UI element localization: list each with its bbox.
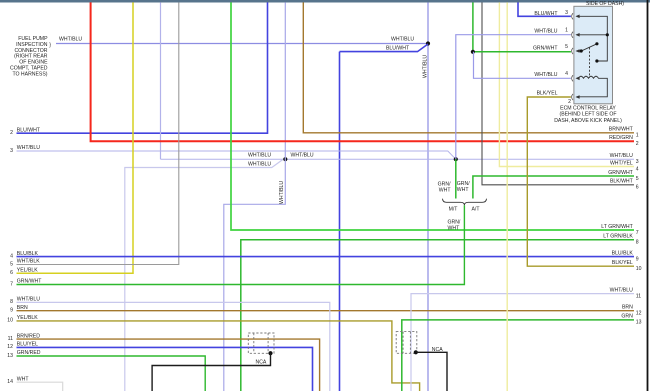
svg-text:12: 12 xyxy=(7,344,13,350)
svg-text:WHT/BLU: WHT/BLU xyxy=(534,29,557,35)
harness boundary bus (top bar) xyxy=(0,0,650,3)
svg-text:NCA: NCA xyxy=(256,360,267,366)
svg-text:WHT/BLU: WHT/BLU xyxy=(423,55,429,78)
svg-text:5: 5 xyxy=(636,176,639,182)
svg-text:BLU/WHT: BLU/WHT xyxy=(17,127,41,133)
svg-text:5: 5 xyxy=(10,261,13,267)
page right border xyxy=(647,0,649,391)
wire BRN/RED left pin 11 down at x=319.6 xyxy=(17,339,320,391)
svg-text:WHT/BLU: WHT/BLU xyxy=(17,297,40,303)
svg-text:13: 13 xyxy=(636,320,642,326)
svg-text:2: 2 xyxy=(636,141,639,147)
relay internal contact wiring xyxy=(577,16,608,97)
svg-text:8: 8 xyxy=(636,240,639,246)
svg-text:14: 14 xyxy=(7,379,13,385)
wire GRN right pin 13 down at x=401.8 xyxy=(402,320,634,391)
wire WHT/BLU pale branch x=124.8 with jog to dot xyxy=(125,159,283,391)
svg-text:GRN/RED: GRN/RED xyxy=(17,350,41,356)
node junction dot WHT/BLU x428 xyxy=(426,41,430,45)
svg-text:WHT: WHT xyxy=(17,376,30,382)
wire LT GRN/BLK right pin 8 down xyxy=(241,240,634,391)
wire WHT/BLU vertical x=285 down and left to x=223.8 xyxy=(224,2,285,391)
wire WHT/BLU relay pin 4 riser xyxy=(474,52,571,79)
label GRN/WHT (A/T branch) xyxy=(457,181,470,193)
svg-text:9: 9 xyxy=(636,256,639,262)
svg-text:BLU/BLK: BLU/BLK xyxy=(17,251,39,257)
node junction dot row3 x285 xyxy=(283,157,287,161)
fuel pump inspection connector label xyxy=(10,36,48,77)
wire BRN/WHT from top bar to right pin 1 xyxy=(303,2,634,132)
svg-text:TO HARNESS): TO HARNESS) xyxy=(12,71,47,77)
connector NCA right (dashed) xyxy=(396,332,417,354)
wire BRN full row left pin 9 to right pin 12 xyxy=(17,310,635,312)
svg-text:6: 6 xyxy=(636,185,639,191)
wire BLU/WHT left pin 2 xyxy=(17,2,268,133)
wire BLK/YEL relay pin 2 down to right pin 10 xyxy=(527,97,634,266)
wire black NCA right drop xyxy=(416,352,447,391)
svg-text:BLU/YEL: BLU/YEL xyxy=(17,342,38,348)
wire YEL/BLK left pin 6 up to top bar xyxy=(17,2,134,273)
M/T A/T selection brace xyxy=(443,199,487,206)
wire BLU/WHT jog segment xyxy=(340,44,429,52)
svg-text:A/T: A/T xyxy=(472,207,481,213)
label GRN/WHT (M/T branch) xyxy=(438,182,452,194)
wire GRN/WHT right pin 5 row xyxy=(473,176,634,199)
svg-text:1: 1 xyxy=(636,133,639,139)
wire BLU/WHT vertical x=339.5 xyxy=(339,52,341,391)
svg-text:(BEHIND LEFT SIDE OF: (BEHIND LEFT SIDE OF xyxy=(559,112,616,118)
svg-text:GRN/WHT: GRN/WHT xyxy=(533,45,558,51)
svg-text:RED/GRN: RED/GRN xyxy=(609,135,633,141)
wire GRN/WHT below brace to left pin 7 xyxy=(17,205,465,284)
svg-text:WHT/BLU: WHT/BLU xyxy=(17,145,40,151)
svg-text:BLU/WHT: BLU/WHT xyxy=(386,46,410,52)
wire black NCA left drop xyxy=(152,353,270,391)
node dot NCA right xyxy=(414,350,418,354)
svg-text:5: 5 xyxy=(565,44,568,50)
wire GRN/WHT from top bar to relay pin 5 xyxy=(473,2,571,51)
wire BLU/WHT relay pin 3 up to top bar xyxy=(518,2,571,16)
svg-text:WHT/BLU: WHT/BLU xyxy=(534,72,557,78)
svg-text:YEL/BLK: YEL/BLK xyxy=(17,268,38,274)
wire WHT/BLU left pin 3 with jog xyxy=(17,151,456,159)
svg-text:1: 1 xyxy=(565,28,568,34)
svg-text:7: 7 xyxy=(10,281,13,287)
svg-text:4: 4 xyxy=(10,253,13,259)
relay pin arrows xyxy=(575,15,579,99)
svg-text:WHT: WHT xyxy=(457,187,470,193)
wire WHT/BLU right pin 11 down at x=411 xyxy=(411,294,634,391)
wire WHT/BLU row 3 horizontal to right pin 3 xyxy=(161,158,635,160)
svg-text:BLK/YEL: BLK/YEL xyxy=(537,90,558,96)
svg-text:BRN: BRN xyxy=(17,305,28,311)
svg-text:2: 2 xyxy=(568,99,571,105)
svg-text:WHT/BLU: WHT/BLU xyxy=(610,287,633,293)
wire LT GRN/WHT from top bar to right pin 7 xyxy=(231,2,634,230)
svg-text:GRN/WHT: GRN/WHT xyxy=(608,170,633,176)
wire RED/GRN from top bar to right pin 2 xyxy=(91,2,634,141)
relay internal junction dots xyxy=(606,33,609,36)
wire BLK/WHT from top bar to right pin 6 xyxy=(482,2,634,184)
svg-text:GRN/WHT: GRN/WHT xyxy=(17,279,42,285)
svg-text:4: 4 xyxy=(565,71,568,77)
svg-text:10: 10 xyxy=(636,266,642,272)
svg-text:9: 9 xyxy=(10,308,13,314)
svg-text:BRN/RED: BRN/RED xyxy=(17,333,40,339)
node junction dot GRN/WHT x472.9 xyxy=(471,50,475,54)
svg-text:M/T: M/T xyxy=(449,207,459,213)
svg-text:WHT: WHT xyxy=(439,188,452,194)
wire GRN/WHT M/T branch xyxy=(455,159,457,198)
svg-text:3: 3 xyxy=(636,159,639,165)
svg-text:11: 11 xyxy=(8,336,13,342)
connector NCA left (dashed) xyxy=(248,333,274,353)
label GRN/WHT (below brace) xyxy=(448,219,461,231)
svg-text:8: 8 xyxy=(10,299,13,305)
wire WHT/YEL from top bar to right pin 4 xyxy=(499,2,634,166)
svg-text:DASH, ABOVE KICK PANEL): DASH, ABOVE KICK PANEL) xyxy=(554,118,622,124)
svg-text:LT GRN/BLK: LT GRN/BLK xyxy=(603,234,633,240)
svg-text:BLU/WHT: BLU/WHT xyxy=(534,11,558,17)
svg-text:WHT/BLU: WHT/BLU xyxy=(279,181,285,204)
node dot NCA left xyxy=(268,351,272,355)
wire BLU/BLK full row left pin 4 to right pin 9 xyxy=(17,256,635,258)
svg-text:3: 3 xyxy=(565,10,568,16)
svg-text:2: 2 xyxy=(10,130,13,136)
relay caption ECM CONTROL RELAY xyxy=(554,106,622,124)
svg-text:13: 13 xyxy=(7,353,13,359)
svg-text:BRN/WHT: BRN/WHT xyxy=(609,127,634,133)
relay pin numbers xyxy=(565,10,571,105)
svg-text:BLK/YEL: BLK/YEL xyxy=(612,260,633,266)
wire WHT/BLU fuel pump to junction xyxy=(56,43,428,45)
svg-text:WHT/BLU: WHT/BLU xyxy=(610,153,633,159)
wire WHT/BLU vertical x=161 to row 3 xyxy=(160,2,162,159)
svg-text:BLU/BLK: BLU/BLK xyxy=(612,250,634,256)
wire WHT/BLU relay pin 1 down to row3 junction xyxy=(456,35,571,160)
svg-text:7: 7 xyxy=(636,230,639,236)
wire WHT/BLU left pin 8 down at x=329.8 xyxy=(17,302,330,391)
relay pin female connector arcs xyxy=(572,13,573,100)
svg-text:WHT: WHT xyxy=(448,225,461,231)
svg-text:ECM CONTROL RELAY: ECM CONTROL RELAY xyxy=(560,106,616,112)
svg-text:WHT/YEL: WHT/YEL xyxy=(610,160,633,166)
wire WHT/BLK left pin 5 up to top bar xyxy=(17,2,179,264)
svg-text:WHT/BLK: WHT/BLK xyxy=(17,259,40,265)
wire YEL/BLK left pin 10 staircase to bottom xyxy=(17,321,420,391)
wire WHT/YEL second vertical x=507 xyxy=(506,2,508,391)
svg-text:BLK/WHT: BLK/WHT xyxy=(610,179,634,185)
svg-text:WHT/BLU: WHT/BLU xyxy=(391,37,414,43)
wire GRN/RED left pin 13 down at x=205.2 xyxy=(17,356,206,391)
svg-text:WHT/BLU: WHT/BLU xyxy=(291,153,314,159)
svg-text:6: 6 xyxy=(10,270,13,276)
relay pin labels xyxy=(533,11,558,96)
node junction dot row3 x455.8 xyxy=(454,157,458,161)
wire BLU/YEL left pin 12 down at x=312.5 xyxy=(17,347,313,391)
svg-text:11: 11 xyxy=(636,293,641,299)
svg-text:12: 12 xyxy=(636,311,642,317)
svg-text:}: } xyxy=(49,42,51,48)
svg-text:4: 4 xyxy=(636,166,639,172)
svg-text:YEL/BLK: YEL/BLK xyxy=(17,315,38,321)
svg-text:LT GRN/WHT: LT GRN/WHT xyxy=(601,224,633,230)
svg-text:10: 10 xyxy=(7,318,13,324)
svg-text:WHT/BLU: WHT/BLU xyxy=(248,153,271,159)
svg-text:WHT/BLU: WHT/BLU xyxy=(59,37,82,43)
svg-text:3: 3 xyxy=(10,148,13,154)
svg-text:GRN: GRN xyxy=(621,314,633,320)
svg-text:BRN: BRN xyxy=(622,305,633,311)
relay U1 box xyxy=(574,6,613,104)
wire WHT left pin 14 down at x=62.7 xyxy=(17,382,63,391)
wire WHT/BLU main vertical x=428 xyxy=(427,2,429,391)
svg-text:WHT/BLU: WHT/BLU xyxy=(248,161,271,167)
